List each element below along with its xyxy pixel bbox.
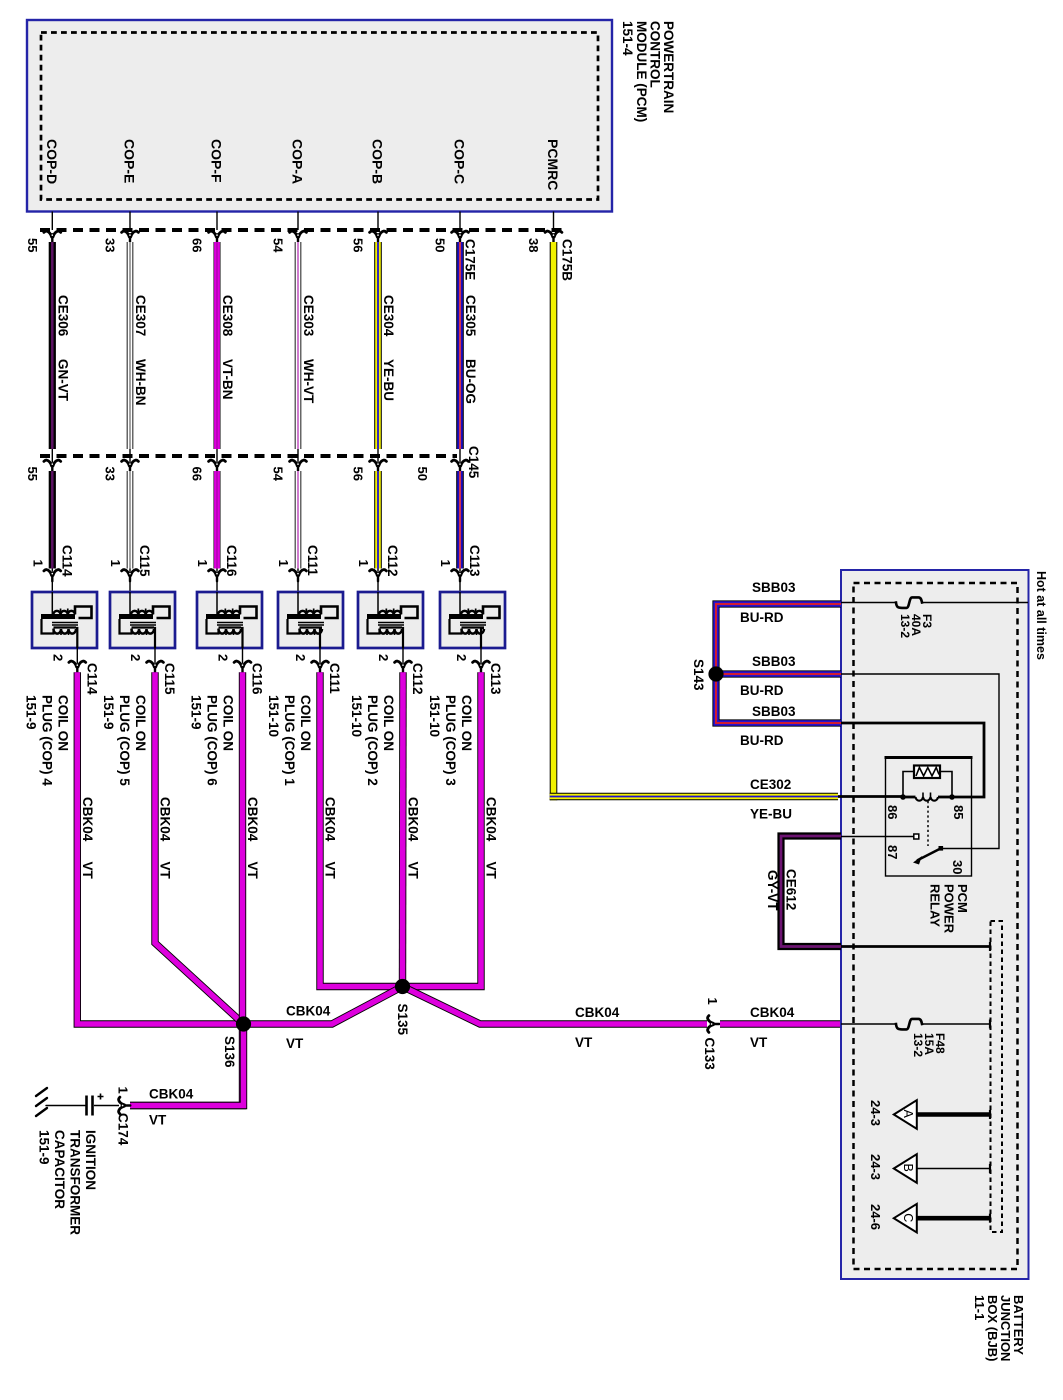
svg-text:C174: C174 [116, 1113, 131, 1146]
svg-text:38: 38 [526, 238, 541, 252]
wire CBK04 VT from coil 3 [130, 672, 260, 1105]
ignition coil on plug PLUG (COP) 4 [32, 592, 97, 648]
ground symbol [36, 1088, 85, 1116]
svg-text:2: 2 [293, 654, 308, 661]
wire from SBB03 middle to relay pin 30 [841, 674, 999, 849]
splice S143 [691, 659, 724, 691]
connector C114 pin 2 [50, 648, 99, 695]
svg-text:CBK04: CBK04 [323, 797, 338, 842]
svg-text:C133: C133 [702, 1038, 717, 1071]
connector C175 terminal pin 55 (COP-D) [25, 231, 61, 252]
svg-text:VT: VT [80, 862, 95, 880]
wire SBB03 BU-RD top (fuse F3 feed) [716, 580, 841, 674]
svg-text:B: B [901, 1164, 915, 1172]
svg-text:CBK04: CBK04 [80, 797, 95, 842]
svg-text:55: 55 [25, 238, 40, 252]
svg-text:CE305: CE305 [463, 295, 478, 337]
svg-text:GY-VT: GY-VT [765, 870, 780, 911]
svg-text:151-4: 151-4 [620, 21, 635, 56]
svg-text:C111: C111 [327, 663, 342, 694]
connector C145 terminal pin 54 [271, 449, 307, 482]
svg-text:COP-A: COP-A [290, 139, 306, 184]
output terminal C 24-6 [894, 1204, 990, 1233]
connector C145 terminal pin 33 [103, 449, 139, 481]
svg-text:56: 56 [351, 467, 366, 481]
svg-text:GN-VT: GN-VT [56, 359, 71, 402]
svg-text:13-2: 13-2 [911, 1033, 925, 1057]
connector C111 pin 1 [276, 545, 320, 594]
wire CE302 to relay pin 86 [838, 795, 903, 798]
svg-text:85: 85 [951, 805, 966, 819]
svg-text:2: 2 [216, 654, 231, 661]
svg-text:COIL ON: COIL ON [133, 695, 148, 751]
connector C112 pin 2 [376, 648, 425, 695]
svg-text:BU-RD: BU-RD [740, 610, 784, 625]
wire CE308 VT-BN (pin 66) [217, 242, 235, 449]
svg-text:2: 2 [50, 654, 65, 661]
svg-text:56: 56 [351, 238, 366, 252]
connector label C175E [463, 239, 478, 280]
wire CE305 BU-OG (pin 50) [460, 242, 478, 449]
wire CE303 segment to coil C111 [295, 471, 302, 569]
svg-text:33: 33 [103, 467, 118, 481]
svg-text:C115: C115 [137, 545, 152, 577]
svg-text:1: 1 [356, 560, 371, 567]
svg-text:C112: C112 [385, 545, 400, 577]
BJB internal bus (dashed) [991, 921, 1003, 1232]
PCM pin PCMRC [545, 139, 561, 230]
connector C175 terminal pin 54 (COP-A) [271, 231, 307, 253]
connector C111 pin 2 [293, 648, 342, 694]
wire CBK04 VT run C133 to BJB [720, 1005, 841, 1050]
svg-text:SBB03: SBB03 [752, 654, 796, 669]
svg-text:66: 66 [190, 467, 205, 481]
svg-text:VT: VT [323, 862, 338, 880]
wire from SBB03 bottom to relay pin 85 [841, 723, 984, 797]
wire C175B YE from PCMRC [550, 242, 558, 800]
svg-text:CE303: CE303 [301, 295, 316, 337]
svg-text:C113: C113 [467, 545, 482, 577]
svg-text:COP-B: COP-B [370, 139, 386, 184]
wire SBB03 BU-RD bottom (relay 85 feed) [716, 674, 841, 748]
svg-text:YE-BU: YE-BU [750, 807, 792, 822]
wire CE612 return to bus [841, 942, 990, 951]
svg-text:C114: C114 [84, 663, 99, 695]
connector C175 dashed line [40, 228, 562, 232]
svg-text:1: 1 [276, 560, 291, 567]
connector C145 terminal pin 66 [190, 449, 226, 481]
svg-text:COIL ON: COIL ON [298, 695, 313, 751]
svg-text:C111: C111 [305, 545, 320, 576]
fuse F3 40A [841, 597, 1028, 638]
svg-text:VT: VT [286, 1036, 304, 1051]
svg-text:C: C [901, 1213, 915, 1222]
connector label C175B [560, 239, 575, 281]
wire CE302 YE-BU to BJB relay [550, 793, 838, 801]
connector C113 pin 2 [454, 648, 503, 695]
svg-text:PLUG (COP) 1: PLUG (COP) 1 [282, 695, 297, 786]
svg-text:C116: C116 [250, 663, 265, 695]
svg-text:1: 1 [438, 560, 453, 567]
connector C174 pin 1 [116, 1087, 131, 1146]
svg-text:PLUG (COP) 3: PLUG (COP) 3 [443, 695, 458, 786]
svg-text:1: 1 [116, 1087, 131, 1094]
wire CE307 segment to coil C115 [127, 471, 134, 569]
ignition coil on plug PLUG (COP) 1 [278, 592, 343, 648]
label CE302 YE-BU [750, 777, 792, 822]
svg-text:CE304: CE304 [381, 295, 396, 337]
svg-text:151-9: 151-9 [189, 695, 204, 730]
connector C116 pin 1 [195, 545, 239, 594]
svg-text:BU-OG: BU-OG [463, 359, 478, 404]
connector C133 pin 1 [702, 998, 720, 1071]
svg-text:C115: C115 [162, 663, 177, 695]
PCM pin COP-F [209, 139, 225, 230]
connector C112 pin 1 [356, 545, 400, 594]
svg-text:VT: VT [575, 1035, 593, 1050]
svg-text:BU-RD: BU-RD [740, 733, 784, 748]
svg-text:RELAY: RELAY [928, 884, 943, 927]
PCM pin COP-E [122, 139, 138, 230]
svg-text:VT: VT [158, 862, 173, 880]
svg-text:CE612: CE612 [784, 869, 799, 910]
svg-text:VT-BN: VT-BN [220, 359, 235, 400]
PCM pin COP-C [452, 139, 468, 230]
wire CE306 segment to coil C114 [49, 471, 56, 569]
coil caption COIL ON PLUG (COP) 1 151-10 [266, 695, 313, 786]
svg-text:CBK04: CBK04 [484, 797, 499, 842]
wire CBK04 VT from coil 6 [403, 672, 499, 986]
svg-text:151-10: 151-10 [266, 695, 281, 737]
svg-text:COP-F: COP-F [209, 139, 225, 183]
connector C114 pin 1 [30, 545, 74, 594]
wire CE308 segment to coil C116 [214, 471, 221, 569]
wire CBK04 VT from coil 5 [403, 672, 421, 986]
svg-text:C175B: C175B [560, 239, 575, 281]
connector C145 terminal pin 55 [25, 449, 61, 481]
PCM pin COP-D [44, 139, 60, 230]
svg-text:CE307: CE307 [133, 295, 148, 336]
svg-text:86: 86 [885, 805, 900, 819]
svg-text:54: 54 [271, 238, 286, 253]
svg-text:CBK04: CBK04 [158, 797, 173, 842]
svg-text:24-6: 24-6 [868, 1204, 883, 1230]
wire CE304 segment to coil C112 [374, 471, 382, 569]
svg-text:C114: C114 [59, 545, 74, 577]
svg-text:PLUG (COP) 4: PLUG (COP) 4 [39, 695, 54, 786]
svg-text:VT: VT [245, 862, 260, 880]
svg-text:30: 30 [950, 860, 965, 874]
svg-text:PCMRC: PCMRC [545, 139, 561, 190]
wire CBK04 VT from coil 1 [77, 672, 243, 1024]
wire CBK04 VT from coil 4 [320, 672, 403, 986]
svg-text:CE302: CE302 [750, 777, 791, 792]
svg-text:50: 50 [433, 238, 448, 252]
relay switch armature [913, 801, 943, 865]
svg-text:151-9: 151-9 [23, 695, 38, 730]
svg-text:VT: VT [406, 862, 421, 880]
svg-text:24-3: 24-3 [868, 1154, 883, 1180]
svg-text:24-3: 24-3 [868, 1100, 883, 1126]
svg-text:IGNITION: IGNITION [83, 1130, 98, 1190]
svg-text:1: 1 [705, 998, 720, 1005]
svg-text:C116: C116 [224, 545, 239, 577]
svg-text:CBK04: CBK04 [286, 1004, 331, 1019]
svg-text:A: A [901, 1110, 915, 1119]
svg-text:151-10: 151-10 [427, 695, 442, 737]
svg-text:S135: S135 [395, 1004, 410, 1036]
connector C175 terminal pin 56 (COP-B) [351, 231, 387, 252]
svg-text:CBK04: CBK04 [149, 1087, 194, 1102]
connector C145 dashed line [40, 454, 457, 458]
connector C145 terminal pin 56 [351, 449, 387, 481]
coil caption COIL ON PLUG (COP) 4 151-9 [23, 695, 70, 786]
svg-text:S143: S143 [691, 659, 706, 691]
connector label C145 [466, 446, 481, 479]
svg-text:VT: VT [750, 1035, 768, 1050]
fuse F48 15A [896, 1019, 990, 1057]
svg-text:50: 50 [415, 467, 430, 481]
PCM pin COP-B [370, 139, 386, 230]
coil caption COIL ON PLUG (COP) 6 151-9 [189, 695, 236, 786]
svg-text:1: 1 [30, 560, 45, 567]
svg-text:55: 55 [25, 467, 40, 481]
svg-text:C112: C112 [410, 663, 425, 695]
connector C116 pin 2 [216, 648, 265, 695]
wire CE307 WH-BN (pin 33) [130, 242, 148, 449]
connector C145 terminal pin 50 [415, 449, 468, 481]
svg-text:C113: C113 [488, 663, 503, 695]
relay PCM POWER RELAY [885, 758, 973, 877]
wire CBK04 VT main run S136 to S135 [244, 987, 403, 1052]
svg-text:CE306: CE306 [56, 295, 71, 337]
connector C113 pin 1 [438, 545, 482, 594]
ignition coil on plug PLUG (COP) 6 [197, 592, 262, 648]
ignition coil on plug PLUG (COP) 2 [358, 592, 423, 648]
output terminal A 24-3 [894, 1100, 990, 1129]
ignition coil on plug PLUG (COP) 5 [110, 592, 175, 648]
connector C115 pin 1 [108, 545, 152, 594]
svg-text:CBK04: CBK04 [406, 797, 421, 842]
coil caption COIL ON PLUG (COP) 3 151-10 [427, 695, 474, 786]
svg-text:CAPACITOR: CAPACITOR [52, 1130, 67, 1209]
svg-text:87: 87 [885, 845, 900, 859]
wire CE305 segment to coil C113 [456, 471, 464, 569]
svg-text:SBB03: SBB03 [752, 580, 796, 595]
connector C175 terminal pin 66 (COP-F) [190, 231, 226, 252]
svg-text:33: 33 [103, 238, 118, 252]
connector C175 terminal pin 38 (PCMRC) [526, 231, 562, 252]
connector C175 terminal pin 33 (COP-E) [103, 231, 139, 252]
svg-text:COIL ON: COIL ON [55, 695, 70, 751]
svg-text:WH-VT: WH-VT [301, 359, 316, 404]
svg-text:S136: S136 [222, 1036, 237, 1068]
PCM powertrain control module box [27, 20, 612, 212]
svg-text:YE-BU: YE-BU [381, 359, 396, 401]
wire CE612 GY-VT loop [765, 836, 841, 947]
wire CE306 GN-VT (pin 55) [52, 242, 70, 449]
svg-text:151-9: 151-9 [101, 695, 116, 730]
svg-text:1: 1 [108, 560, 123, 567]
output terminal B 24-3 [894, 1154, 990, 1183]
svg-text:WH-BN: WH-BN [133, 359, 148, 406]
svg-text:VT: VT [484, 862, 499, 880]
svg-text:BU-RD: BU-RD [740, 683, 784, 698]
PCM title POWERTRAIN CONTROL MODULE (PCM) 151-4 [620, 21, 676, 122]
svg-text:2: 2 [376, 654, 391, 661]
svg-text:COP-E: COP-E [122, 139, 138, 183]
svg-text:PLUG (COP) 6: PLUG (COP) 6 [205, 695, 220, 786]
svg-text:VT: VT [149, 1113, 167, 1128]
splice S135 [395, 979, 410, 1036]
svg-text:Hot at all times: Hot at all times [1034, 571, 1048, 660]
svg-text:CBK04: CBK04 [575, 1005, 620, 1020]
svg-text:PLUG (COP) 2: PLUG (COP) 2 [365, 695, 380, 786]
wire CBK04 VT from coil 2 [155, 672, 244, 1024]
relay caption PCM POWER RELAY [928, 884, 970, 934]
splice S136 [222, 1016, 251, 1068]
connector C175 terminal pin 50 (COP-C) [433, 231, 469, 252]
svg-text:151-9: 151-9 [37, 1130, 52, 1165]
relay coil with parallel resistor [900, 766, 955, 801]
svg-text:COIL ON: COIL ON [459, 695, 474, 751]
coil caption COIL ON PLUG (COP) 5 151-9 [101, 695, 148, 786]
capacitor caption IGNITION TRANSFORMER CAPACITOR 151-9 [37, 1130, 99, 1235]
coil caption COIL ON PLUG (COP) 2 151-10 [349, 695, 396, 786]
svg-text:COP-D: COP-D [44, 139, 60, 184]
svg-text:2: 2 [128, 654, 143, 661]
svg-text:CBK04: CBK04 [750, 1005, 795, 1020]
wire CBK04 VT run S135 to C133 [403, 987, 708, 1051]
svg-text:54: 54 [271, 467, 286, 482]
wire CBK04 VT from S136 to capacitor C174 [130, 1024, 244, 1128]
relay pin labels 86 85 87 30 [885, 805, 966, 874]
label Hot at all times [1034, 571, 1048, 660]
wire CE303 WH-VT (pin 54) [298, 242, 316, 449]
connector C115 pin 2 [128, 648, 177, 695]
svg-text:C175E: C175E [463, 239, 478, 280]
wire relay pin 87 to CE612 [841, 836, 914, 838]
battery junction box (BJB) [841, 570, 1029, 1279]
svg-text:11-1: 11-1 [972, 1295, 987, 1320]
svg-text:66: 66 [190, 238, 205, 252]
svg-text:CE308: CE308 [220, 295, 235, 337]
svg-text:COP-C: COP-C [452, 139, 468, 184]
svg-text:PLUG (COP) 5: PLUG (COP) 5 [117, 695, 132, 786]
wire CE304 YE-BU (pin 56) [378, 242, 396, 449]
svg-text:1: 1 [195, 560, 210, 567]
PCM pin COP-A [290, 139, 306, 230]
svg-text:COIL ON: COIL ON [221, 695, 236, 751]
BJB caption BATTERY JUNCTION BOX (BJB) 11-1 [972, 1295, 1026, 1361]
svg-text:TRANSFORMER: TRANSFORMER [68, 1130, 83, 1235]
ignition coil on plug PLUG (COP) 3 [440, 592, 505, 648]
wire SBB03 BU-RD middle (relay 30 feed) [716, 654, 841, 698]
svg-text:151-10: 151-10 [349, 695, 364, 737]
capacitor (ignition transformer capacitor) [87, 1094, 120, 1116]
svg-text:CBK04: CBK04 [245, 797, 260, 842]
svg-text:SBB03: SBB03 [752, 704, 796, 719]
svg-text:13-2: 13-2 [898, 614, 912, 638]
svg-text:2: 2 [454, 654, 469, 661]
svg-text:COIL ON: COIL ON [381, 695, 396, 751]
